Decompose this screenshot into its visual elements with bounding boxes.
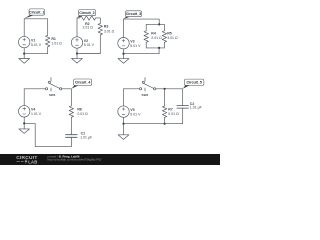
svg-text:5.01 V: 5.01 V: [130, 44, 141, 48]
ground circuit3: [118, 54, 129, 64]
svg-text:Circuit_4: Circuit_4: [75, 81, 90, 85]
node circuit5 junction: [122, 123, 124, 125]
wire circuit2 bottom: [77, 53, 100, 55]
node circuit4 junction: [23, 122, 25, 124]
wire V4 bottom stem: [23, 117, 25, 123]
node circuit5 R7 bottom junction: [164, 123, 166, 125]
wire V3 top stem: [123, 19, 125, 37]
svg-text:R5: R5: [167, 32, 172, 36]
node circuit1 junction: [23, 53, 25, 55]
label callout Circuit_5: [183, 85, 190, 88]
svg-text:SW2: SW2: [142, 93, 149, 97]
svg-text:V5: V5: [130, 108, 134, 112]
node circuit3 top junction: [158, 23, 160, 25]
svg-text:V4: V4: [31, 108, 35, 112]
svg-text:2.01 Ω: 2.01 Ω: [82, 26, 93, 30]
svg-text:R3: R3: [104, 25, 109, 29]
node circuit2 junction: [76, 52, 78, 54]
label callout Circuit_1: [24, 15, 34, 19]
wire SW2 to C2 corner: [156, 89, 183, 106]
label callout Circuit_4: [72, 85, 80, 88]
wire circuit1 top: [24, 18, 48, 20]
svg-text:R1: R1: [51, 37, 56, 41]
wire circuit3 top: [124, 19, 160, 24]
voltage source V5: [118, 106, 129, 117]
wire V4 top stem: [23, 89, 25, 106]
wire circuit5 bottom: [124, 123, 183, 125]
node circuit3 bottom bar junction: [158, 47, 160, 49]
resistor R7: [162, 89, 166, 124]
svg-text:R6: R6: [77, 107, 82, 111]
svg-text:1.01 V: 1.01 V: [31, 112, 42, 116]
wire circuit1 bottom: [24, 53, 48, 55]
wire circuit4 top-left: [24, 88, 45, 90]
svg-text:Circuit_3: Circuit_3: [126, 12, 141, 16]
wire V1 top stem: [23, 19, 25, 37]
svg-text:LAB: LAB: [28, 159, 37, 164]
svg-text:R7: R7: [168, 108, 173, 112]
svg-text:3.01 Ω: 3.01 Ω: [104, 29, 115, 33]
svg-text:R4: R4: [151, 32, 156, 36]
resistor R2: [80, 16, 96, 20]
switch SW2: [140, 78, 156, 92]
svg-text:0.01 Ω: 0.01 Ω: [77, 112, 88, 116]
resistor R4: [144, 24, 148, 48]
svg-text:5.01 V: 5.01 V: [31, 43, 42, 47]
svg-text:V3: V3: [130, 40, 134, 44]
switch SW1: [46, 78, 62, 92]
svg-text:Circuit_5: Circuit_5: [186, 81, 201, 85]
label callout Circuit_3: [124, 17, 131, 19]
wire V5 top stem: [123, 89, 125, 106]
ground circuit4: [19, 123, 30, 133]
voltage source V4: [19, 106, 30, 117]
svg-text:3.01 Ω: 3.01 Ω: [167, 36, 178, 40]
capacitor C1: [66, 135, 78, 147]
voltage source V3: [118, 38, 129, 49]
node circuit3 bottom junction: [122, 53, 124, 55]
wire circuit3 parallel top bar: [146, 23, 164, 25]
footer logo bolt: [25, 159, 28, 164]
wire circuit4 bottom jog: [24, 123, 71, 146]
ground circuit1: [19, 54, 30, 64]
wire circuit2 top-right: [96, 18, 101, 23]
wire circuit3 parallel bottom bar: [146, 47, 164, 49]
resistor R6: [69, 89, 73, 135]
wire V3 bottom stem: [123, 49, 125, 54]
svg-text:Circuit_2: Circuit_2: [79, 11, 94, 15]
wire SW1 to branch: [62, 88, 72, 90]
resistor R5: [162, 24, 166, 48]
wire V2 top stem: [76, 18, 78, 37]
svg-text:http://circuitlab.com/circuit/: http://circuitlab.com/circuit/ed75kg9dc7…: [48, 158, 102, 162]
ground circuit5: [118, 124, 129, 140]
svg-text:V1: V1: [31, 38, 35, 42]
capacitor C2: [177, 106, 189, 124]
resistor R1: [46, 19, 50, 54]
voltage source V2: [71, 37, 82, 48]
footer bar: [0, 154, 220, 165]
wire circuit2 top-left: [77, 17, 80, 19]
svg-text:1.01 Ω: 1.01 Ω: [51, 42, 62, 46]
svg-text:5.01 V: 5.01 V: [130, 112, 141, 116]
wire circuit3 bottom: [124, 53, 160, 55]
svg-text:Circuit_1: Circuit_1: [29, 10, 44, 14]
svg-text:5.01 V: 5.01 V: [84, 43, 95, 47]
resistor R3: [98, 23, 102, 53]
ground circuit2: [72, 54, 83, 64]
svg-text:1.01 µF: 1.01 µF: [190, 106, 202, 110]
wire V1 bottom stem: [23, 48, 25, 54]
svg-text:1.01 µF: 1.01 µF: [80, 136, 92, 140]
svg-text:SW1: SW1: [49, 93, 56, 97]
svg-text:V2: V2: [84, 39, 88, 43]
svg-text:2.01 Ω: 2.01 Ω: [151, 36, 162, 40]
footer logo dashes: [17, 160, 24, 162]
wire V2 bottom stem: [76, 48, 78, 53]
node circuit5 R7 top junction: [164, 88, 166, 90]
wire circuit3 bottom stem: [158, 48, 160, 54]
voltage source V1: [19, 36, 30, 47]
svg-text:0.01 Ω: 0.01 Ω: [168, 112, 179, 116]
wire V5 bottom stem: [123, 117, 125, 123]
label callout Circuit_2: [77, 16, 84, 18]
wire circuit5 top-left: [124, 88, 140, 90]
